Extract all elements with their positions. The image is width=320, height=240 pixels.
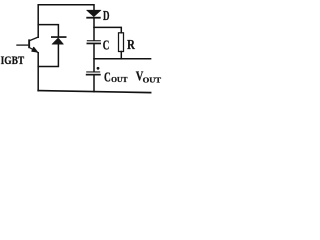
svg-text:C: C <box>104 70 111 85</box>
capacitor COUT top plate <box>86 71 100 72</box>
wire capacitor C bottom to output node <box>93 44 95 71</box>
wire branch to resistor R top <box>94 27 121 32</box>
wire diode D to capacitor C <box>93 18 95 40</box>
freewheeling diode cathode bar <box>51 36 67 38</box>
wire branch to freewheeling diode top <box>38 25 58 37</box>
capacitor C bottom plate <box>87 43 102 45</box>
resistor R <box>119 33 124 52</box>
junction polarity dot <box>97 67 100 70</box>
svg-text:R: R <box>127 38 136 53</box>
wire top rail <box>38 5 94 38</box>
wire output rail VOUT+ <box>94 58 151 60</box>
transistor emitter lead <box>30 48 39 53</box>
wire capacitor COUT bottom lead <box>93 75 95 91</box>
svg-text:IGBT: IGBT <box>1 54 25 67</box>
capacitor COUT bottom plate <box>86 74 101 76</box>
freewheeling diode triangle <box>52 38 63 44</box>
svg-text:D: D <box>103 8 110 23</box>
wire bottom rail <box>38 91 150 93</box>
diode D <box>86 10 101 18</box>
wire resistor R bottom lead <box>120 52 122 59</box>
wire freewheeling diode bottom to emitter <box>38 44 58 66</box>
transistor collector lead <box>30 37 39 41</box>
wire emitter vertical <box>37 53 39 91</box>
svg-text:OUT: OUT <box>143 75 162 84</box>
diode D cathode bar <box>86 17 100 19</box>
transistor Q1 IGBT symbol <box>16 37 38 53</box>
diode D triangle <box>87 10 101 17</box>
capacitor C top plate <box>87 40 101 41</box>
svg-text:C: C <box>103 37 110 52</box>
capacitor C <box>87 40 102 44</box>
transistor gate wire <box>16 44 28 46</box>
freewheeling diode D2 <box>51 36 67 44</box>
capacitor COUT <box>86 71 101 75</box>
transistor base bar <box>28 39 30 48</box>
transistor emitter arrow <box>32 47 37 52</box>
svg-text:OUT: OUT <box>111 75 127 84</box>
